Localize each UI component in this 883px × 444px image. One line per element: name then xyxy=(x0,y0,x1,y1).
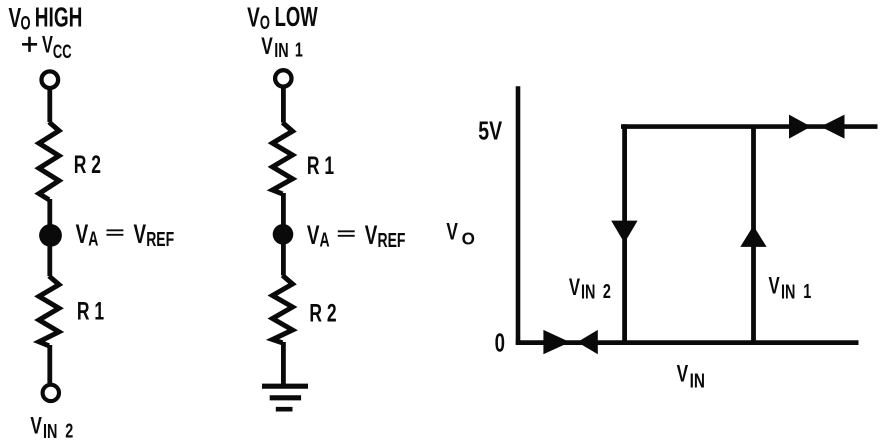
svg-text:IN: IN xyxy=(781,280,795,303)
svg-text:2: 2 xyxy=(603,280,611,303)
svg-text:R 2: R 2 xyxy=(74,150,101,179)
svg-text:V: V xyxy=(9,3,22,35)
svg-text:V: V xyxy=(569,274,580,301)
wire xyxy=(47,345,52,383)
label V_IN (x-axis) xyxy=(677,361,705,392)
svg-text:REF: REF xyxy=(378,228,406,251)
label V_A = V_REF (middle) xyxy=(307,220,406,252)
label V_IN 1 (graph) xyxy=(769,273,812,303)
svg-text:IN: IN xyxy=(581,280,595,303)
svg-text:A: A xyxy=(320,228,330,251)
x-axis xyxy=(516,340,859,345)
resistor R1 (middle) xyxy=(273,123,293,194)
label V_IN 2 (graph) xyxy=(569,274,611,303)
terminal +Vcc xyxy=(42,71,59,88)
wire top 5V line xyxy=(621,124,878,129)
terminal V_IN1 xyxy=(275,70,291,86)
svg-text:O: O xyxy=(462,228,475,249)
wire V_IN2 vertical xyxy=(622,124,627,342)
terminal V_IN2 xyxy=(43,385,59,401)
label V_IN 1 (top) xyxy=(261,33,303,61)
svg-text:V: V xyxy=(76,219,89,249)
wire V_IN1 vertical xyxy=(751,127,756,343)
wire xyxy=(281,342,286,386)
node A (middle) V_A xyxy=(273,224,294,245)
wire xyxy=(281,87,286,123)
svg-text:V: V xyxy=(30,413,42,439)
svg-text:IN: IN xyxy=(43,420,57,443)
label +V_CC xyxy=(22,31,72,62)
svg-text:LOW: LOW xyxy=(275,2,319,33)
svg-text:A: A xyxy=(88,227,98,250)
svg-text:CC: CC xyxy=(53,41,72,62)
wire xyxy=(47,88,52,122)
svg-text:2: 2 xyxy=(65,419,73,442)
y-axis xyxy=(516,86,521,345)
wire xyxy=(47,245,52,276)
resistor R2 (middle) xyxy=(273,275,293,343)
svg-text:1: 1 xyxy=(295,38,303,61)
svg-text:1: 1 xyxy=(803,280,811,303)
label V_O LOW xyxy=(247,2,318,34)
node A (left) V_A xyxy=(39,224,62,247)
label V_IN 2 xyxy=(30,413,73,443)
svg-text:5V: 5V xyxy=(478,116,502,145)
label V_A = V_REF (left) xyxy=(76,219,175,251)
label V_O (graph y-axis) xyxy=(446,219,475,249)
svg-text:V: V xyxy=(677,361,689,387)
arrow up on V_IN1 line xyxy=(740,226,766,247)
ground xyxy=(262,386,308,409)
svg-text:V: V xyxy=(247,2,260,34)
svg-text:R 2: R 2 xyxy=(309,298,336,327)
svg-text:0: 0 xyxy=(495,329,505,358)
arrow right (top bowtie left half) xyxy=(789,115,811,139)
svg-text:O: O xyxy=(260,12,270,33)
svg-text:V: V xyxy=(261,33,273,59)
label V_O HIGH xyxy=(9,2,83,34)
wire xyxy=(47,199,52,226)
svg-text:V: V xyxy=(446,219,458,245)
svg-text:V: V xyxy=(365,220,378,250)
svg-text:V: V xyxy=(307,220,320,250)
resistor R2 (left) xyxy=(39,122,59,200)
svg-text:V: V xyxy=(134,219,147,249)
arrow down on V_IN2 line xyxy=(611,221,637,243)
wire xyxy=(281,193,286,225)
svg-text:V: V xyxy=(769,273,780,300)
svg-text:R 1: R 1 xyxy=(77,296,104,325)
svg-text:R 1: R 1 xyxy=(307,151,334,180)
svg-text:HIGH: HIGH xyxy=(35,2,83,34)
svg-text:IN: IN xyxy=(690,370,705,393)
arrow left (top bowtie right half) xyxy=(821,115,845,139)
svg-text:V: V xyxy=(42,31,53,58)
arrow left (bottom bowtie right half) xyxy=(577,330,598,354)
wire xyxy=(281,244,286,276)
resistor R1 (left) xyxy=(39,276,59,346)
arrow right (bottom bowtie left half) xyxy=(543,330,570,354)
svg-text:O: O xyxy=(21,13,31,34)
svg-text:REF: REF xyxy=(146,227,174,250)
svg-text:IN: IN xyxy=(274,38,288,61)
